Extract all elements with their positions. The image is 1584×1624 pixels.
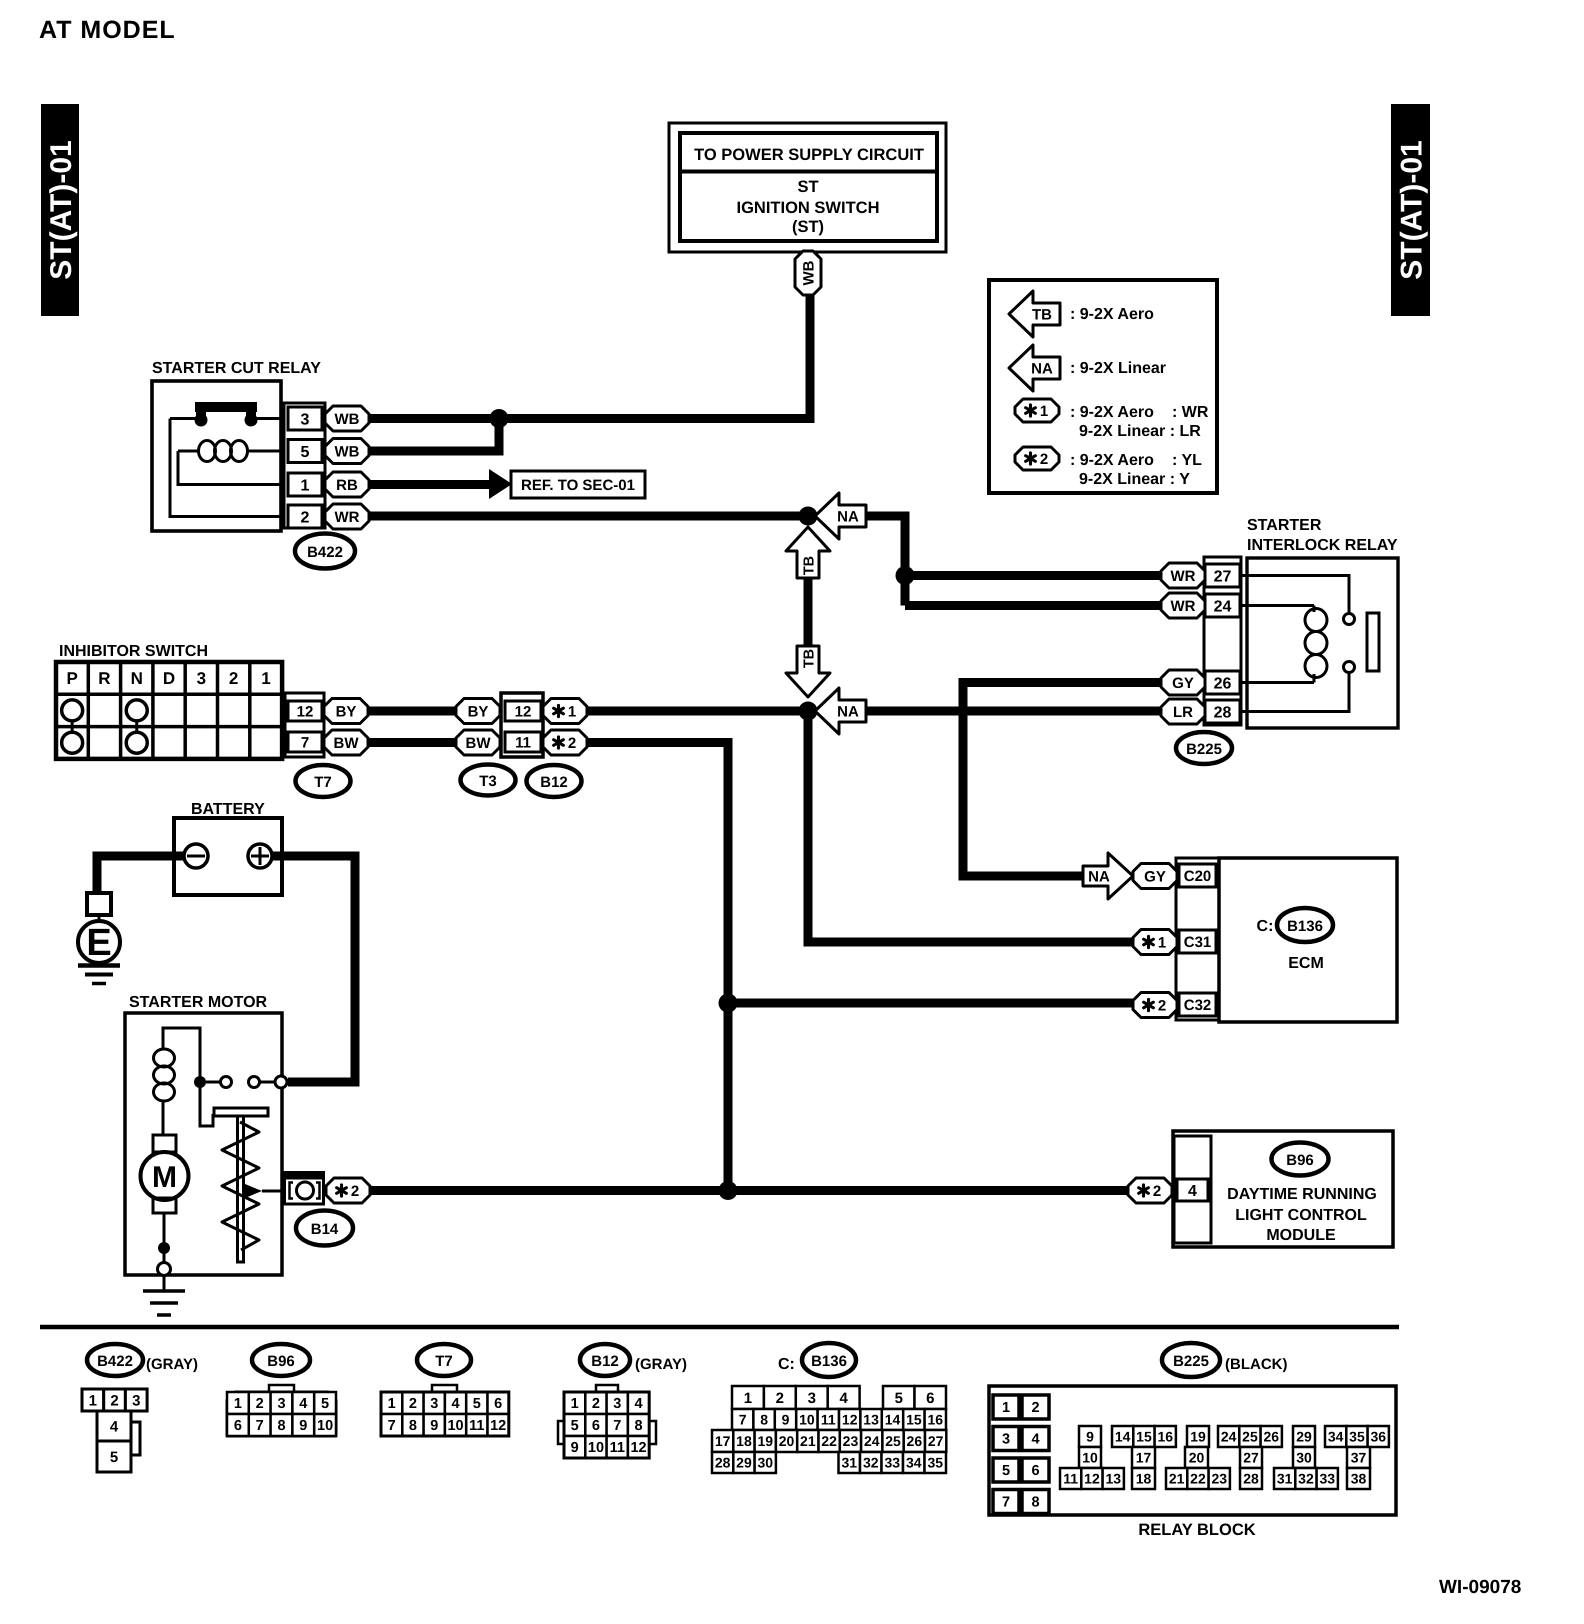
svg-text:T7: T7 <box>314 774 332 791</box>
svg-text:BW: BW <box>466 735 492 752</box>
svg-text:R: R <box>98 669 110 688</box>
svg-text:STARTER MOTOR: STARTER MOTOR <box>129 994 268 1011</box>
svg-text:LIGHT CONTROL: LIGHT CONTROL <box>1235 1207 1367 1224</box>
svg-text:23: 23 <box>1211 1471 1227 1487</box>
svg-text:10: 10 <box>588 1440 604 1456</box>
svg-text:17: 17 <box>1136 1450 1152 1466</box>
svg-text:GY: GY <box>1172 675 1194 692</box>
svg-text:1: 1 <box>1002 1400 1010 1416</box>
svg-text:6: 6 <box>234 1418 242 1434</box>
svg-text:34: 34 <box>906 1455 922 1471</box>
svg-text:27: 27 <box>1214 568 1232 585</box>
svg-text:GY: GY <box>1144 868 1166 885</box>
svg-text:5: 5 <box>895 1390 903 1407</box>
svg-text:: 9-2X Aero: : 9-2X Aero <box>1070 306 1154 323</box>
svg-text:3: 3 <box>132 1392 140 1409</box>
svg-text:WR: WR <box>335 509 360 526</box>
svg-text:BW: BW <box>334 735 360 752</box>
svg-text:18: 18 <box>736 1433 752 1449</box>
svg-text:9-2X Linear : LR: 9-2X Linear : LR <box>1079 423 1201 440</box>
svg-text:7: 7 <box>301 734 309 751</box>
svg-text:7: 7 <box>739 1412 747 1428</box>
svg-text:23: 23 <box>843 1433 859 1449</box>
svg-text:N: N <box>131 669 143 688</box>
svg-text:4: 4 <box>110 1418 119 1435</box>
svg-text:TB: TB <box>801 556 817 575</box>
svg-text:3: 3 <box>808 1390 816 1407</box>
svg-text:M: M <box>152 1161 177 1194</box>
svg-text:RB: RB <box>336 477 358 494</box>
svg-text:29: 29 <box>1296 1429 1312 1445</box>
svg-text:10: 10 <box>447 1418 463 1434</box>
svg-text:INHIBITOR SWITCH: INHIBITOR SWITCH <box>59 643 208 660</box>
svg-text:12: 12 <box>630 1440 646 1456</box>
svg-text:28: 28 <box>715 1455 731 1471</box>
svg-text:12: 12 <box>297 703 314 720</box>
svg-text:11: 11 <box>821 1412 836 1428</box>
svg-text:22: 22 <box>821 1433 837 1449</box>
svg-text:B96: B96 <box>267 1353 295 1370</box>
svg-text:14: 14 <box>885 1412 901 1428</box>
svg-text:25: 25 <box>1242 1429 1258 1445</box>
svg-text:2: 2 <box>110 1392 118 1409</box>
svg-text:22: 22 <box>1190 1471 1206 1487</box>
svg-text:6: 6 <box>592 1418 600 1434</box>
svg-text:24: 24 <box>864 1433 880 1449</box>
svg-text:WR: WR <box>1171 598 1196 615</box>
svg-text:B136: B136 <box>811 1353 847 1370</box>
svg-text:1: 1 <box>388 1396 396 1412</box>
svg-text:11: 11 <box>469 1418 484 1434</box>
svg-text:BATTERY: BATTERY <box>191 801 265 818</box>
svg-text:1: 1 <box>1158 934 1166 951</box>
svg-text:4: 4 <box>839 1390 848 1407</box>
svg-text:15: 15 <box>906 1412 922 1428</box>
svg-text:4: 4 <box>635 1396 643 1412</box>
svg-text:3: 3 <box>613 1396 621 1412</box>
svg-text:WB: WB <box>335 443 360 460</box>
svg-text:16: 16 <box>928 1412 944 1428</box>
svg-text:NA: NA <box>837 508 859 525</box>
svg-text:NA: NA <box>837 703 859 720</box>
svg-text:7: 7 <box>388 1418 396 1434</box>
svg-text:C:: C: <box>778 1356 795 1373</box>
svg-text:(BLACK): (BLACK) <box>1225 1356 1287 1373</box>
svg-text:WI-09078: WI-09078 <box>1439 1577 1521 1598</box>
svg-text:32: 32 <box>863 1455 879 1471</box>
svg-text:6: 6 <box>494 1396 502 1412</box>
svg-text:10: 10 <box>317 1418 333 1434</box>
svg-text:2: 2 <box>1040 451 1048 468</box>
svg-text:6: 6 <box>926 1390 934 1407</box>
svg-text:13: 13 <box>863 1412 879 1428</box>
svg-text:33: 33 <box>1319 1471 1335 1487</box>
svg-text:11: 11 <box>515 734 531 751</box>
svg-text:: WR: : WR <box>1172 404 1209 421</box>
svg-text:20: 20 <box>779 1433 795 1449</box>
svg-text:1: 1 <box>571 1396 579 1412</box>
svg-text:(GRAY): (GRAY) <box>635 1356 687 1373</box>
svg-text:2: 2 <box>409 1396 417 1412</box>
svg-text:27: 27 <box>1243 1450 1259 1466</box>
svg-text:2: 2 <box>1153 1183 1161 1200</box>
svg-text:11: 11 <box>610 1440 625 1456</box>
svg-text:35: 35 <box>1349 1429 1365 1445</box>
svg-text:B14: B14 <box>311 1221 339 1238</box>
svg-text:MODULE: MODULE <box>1266 1227 1336 1244</box>
svg-text:C20: C20 <box>1184 868 1212 885</box>
svg-text:7: 7 <box>613 1418 621 1434</box>
svg-text:1: 1 <box>234 1396 242 1412</box>
svg-text:: 9-2X Linear: : 9-2X Linear <box>1070 360 1166 377</box>
svg-text:D: D <box>163 669 175 688</box>
svg-text:27: 27 <box>928 1433 944 1449</box>
svg-text:6: 6 <box>1031 1463 1039 1479</box>
svg-text:9: 9 <box>299 1418 307 1434</box>
svg-text:WB: WB <box>335 411 360 428</box>
svg-text:TO POWER SUPPLY CIRCUIT: TO POWER SUPPLY CIRCUIT <box>694 146 924 164</box>
svg-text:2: 2 <box>776 1390 784 1407</box>
svg-text:DAYTIME RUNNING: DAYTIME RUNNING <box>1227 1186 1377 1203</box>
svg-text:LR: LR <box>1173 704 1193 721</box>
svg-text:2: 2 <box>1158 997 1166 1014</box>
svg-text:STARTER: STARTER <box>1247 517 1322 534</box>
svg-text:B12: B12 <box>591 1353 619 1370</box>
svg-text:34: 34 <box>1328 1429 1344 1445</box>
svg-text:29: 29 <box>736 1455 752 1471</box>
svg-text:TB: TB <box>1032 306 1052 323</box>
svg-text:13: 13 <box>1105 1471 1121 1487</box>
svg-text:2: 2 <box>592 1396 600 1412</box>
svg-text:4: 4 <box>452 1396 460 1412</box>
svg-text:B96: B96 <box>1286 1152 1314 1169</box>
svg-text:WR: WR <box>1171 568 1196 585</box>
svg-text:3: 3 <box>301 411 310 428</box>
svg-text:B225: B225 <box>1173 1353 1209 1370</box>
svg-text:STARTER CUT RELAY: STARTER CUT RELAY <box>152 360 321 377</box>
svg-text:31: 31 <box>1277 1471 1293 1487</box>
svg-text:1: 1 <box>261 669 270 688</box>
svg-text:18: 18 <box>1136 1471 1152 1487</box>
svg-text:INTERLOCK RELAY: INTERLOCK RELAY <box>1247 537 1398 554</box>
svg-text:4: 4 <box>1031 1432 1039 1448</box>
svg-text:8: 8 <box>277 1418 285 1434</box>
svg-text:NA: NA <box>1031 360 1053 377</box>
svg-text:8: 8 <box>1031 1495 1039 1511</box>
svg-text:28: 28 <box>1243 1471 1259 1487</box>
svg-text:17: 17 <box>715 1433 731 1449</box>
svg-text:3: 3 <box>1002 1432 1010 1448</box>
svg-text:5: 5 <box>301 444 310 461</box>
svg-text:26: 26 <box>907 1433 923 1449</box>
svg-text:10: 10 <box>1082 1450 1098 1466</box>
svg-text:12: 12 <box>515 703 532 720</box>
svg-text:B12: B12 <box>540 774 568 791</box>
svg-text:19: 19 <box>1190 1429 1206 1445</box>
svg-text:C:: C: <box>1257 918 1274 935</box>
svg-text:(GRAY): (GRAY) <box>146 1356 198 1373</box>
svg-text:31: 31 <box>841 1455 857 1471</box>
svg-text:(ST): (ST) <box>792 218 824 236</box>
svg-text:: 9-2X Aero: : 9-2X Aero <box>1070 452 1154 469</box>
svg-text:9: 9 <box>782 1412 790 1428</box>
svg-text:2: 2 <box>351 1183 359 1200</box>
svg-text:8: 8 <box>635 1418 643 1434</box>
svg-text:14: 14 <box>1115 1429 1131 1445</box>
svg-text:16: 16 <box>1157 1429 1173 1445</box>
svg-text:2: 2 <box>1031 1400 1039 1416</box>
svg-text:1: 1 <box>89 1392 97 1409</box>
svg-text:5: 5 <box>1002 1463 1010 1479</box>
svg-text:ST(AT)-01: ST(AT)-01 <box>45 140 78 279</box>
svg-text:BY: BY <box>468 703 489 720</box>
svg-text:5: 5 <box>571 1418 579 1434</box>
svg-text:ST(AT)-01: ST(AT)-01 <box>1395 140 1428 279</box>
svg-text:REF. TO SEC-01: REF. TO SEC-01 <box>521 477 635 494</box>
svg-text:15: 15 <box>1136 1429 1152 1445</box>
svg-text:9: 9 <box>430 1418 438 1434</box>
svg-text:38: 38 <box>1351 1471 1367 1487</box>
svg-text:24: 24 <box>1214 598 1232 615</box>
svg-text:B225: B225 <box>1186 741 1222 758</box>
svg-text:8: 8 <box>760 1412 768 1428</box>
svg-text:26: 26 <box>1214 675 1232 692</box>
svg-text:1: 1 <box>301 477 310 494</box>
svg-text:33: 33 <box>884 1455 900 1471</box>
svg-text:9: 9 <box>1086 1429 1094 1445</box>
svg-text:36: 36 <box>1370 1429 1386 1445</box>
svg-text:3: 3 <box>277 1396 285 1412</box>
svg-text:C31: C31 <box>1184 934 1212 951</box>
svg-text:21: 21 <box>1169 1471 1185 1487</box>
svg-text:5: 5 <box>321 1396 329 1412</box>
svg-text:T7: T7 <box>435 1353 453 1370</box>
svg-text:3: 3 <box>430 1396 438 1412</box>
svg-text:32: 32 <box>1298 1471 1314 1487</box>
svg-text:30: 30 <box>757 1455 773 1471</box>
svg-text:C32: C32 <box>1184 997 1212 1014</box>
svg-text:1: 1 <box>568 703 576 720</box>
svg-text:25: 25 <box>885 1433 901 1449</box>
svg-text:2: 2 <box>229 669 238 688</box>
svg-text:P: P <box>66 669 77 688</box>
svg-text:NA: NA <box>1088 868 1110 885</box>
svg-text:9: 9 <box>571 1440 579 1456</box>
svg-text:AT MODEL: AT MODEL <box>39 16 176 44</box>
svg-text:7: 7 <box>256 1418 264 1434</box>
svg-text:: YL: : YL <box>1172 452 1202 469</box>
svg-text:3: 3 <box>197 669 206 688</box>
svg-text:9-2X Linear : Y: 9-2X Linear : Y <box>1079 471 1190 488</box>
svg-text:BY: BY <box>336 703 357 720</box>
svg-text:2: 2 <box>256 1396 264 1412</box>
svg-text:28: 28 <box>1214 704 1232 721</box>
svg-text:WB: WB <box>800 260 817 285</box>
svg-text:21: 21 <box>800 1433 816 1449</box>
svg-text:IGNITION SWITCH: IGNITION SWITCH <box>737 199 880 217</box>
svg-text:TB: TB <box>801 649 817 668</box>
svg-text:12: 12 <box>490 1418 506 1434</box>
svg-text:E: E <box>86 922 111 964</box>
svg-text:4: 4 <box>1188 1183 1197 1200</box>
svg-text:2: 2 <box>568 735 576 752</box>
svg-text:12: 12 <box>842 1412 858 1428</box>
svg-text:1: 1 <box>744 1390 752 1407</box>
svg-text:12: 12 <box>1084 1471 1100 1487</box>
svg-text:RELAY BLOCK: RELAY BLOCK <box>1138 1521 1255 1539</box>
svg-text:19: 19 <box>757 1433 773 1449</box>
svg-text:ST: ST <box>797 178 818 196</box>
svg-text:26: 26 <box>1263 1429 1279 1445</box>
svg-text:20: 20 <box>1189 1450 1205 1466</box>
svg-text:B422: B422 <box>97 1353 133 1370</box>
svg-text:2: 2 <box>301 509 310 526</box>
svg-text:4: 4 <box>299 1396 307 1412</box>
svg-text:10: 10 <box>799 1412 815 1428</box>
svg-text:B136: B136 <box>1287 918 1323 935</box>
svg-text:: 9-2X Aero: : 9-2X Aero <box>1070 404 1154 421</box>
svg-text:30: 30 <box>1296 1450 1312 1466</box>
svg-text:35: 35 <box>927 1455 943 1471</box>
svg-text:37: 37 <box>1351 1450 1367 1466</box>
svg-text:1: 1 <box>1040 403 1048 420</box>
svg-text:7: 7 <box>1002 1495 1010 1511</box>
svg-text:5: 5 <box>110 1449 118 1466</box>
svg-text:ECM: ECM <box>1288 955 1324 972</box>
svg-text:24: 24 <box>1221 1429 1237 1445</box>
svg-text:T3: T3 <box>479 773 497 790</box>
svg-text:B422: B422 <box>307 544 343 561</box>
svg-text:11: 11 <box>1063 1471 1078 1487</box>
svg-text:8: 8 <box>409 1418 417 1434</box>
svg-text:5: 5 <box>473 1396 481 1412</box>
